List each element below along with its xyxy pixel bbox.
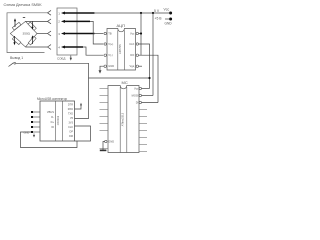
USB right pin labels: [68, 104, 74, 139]
wire net4 from bridge bottom: [26, 46, 48, 48]
svg-text:ТВ: ТВ: [108, 32, 112, 36]
svg-text:5 V: 5 V: [154, 9, 160, 13]
wire MC MOSI riser: [142, 95, 154, 97]
MC ground bar: [100, 150, 107, 152]
ADC pin Vss circle: [136, 65, 138, 67]
MC right stubs: [139, 110, 147, 152]
ADC ground arrow: [99, 70, 102, 73]
sensor box: [7, 13, 48, 53]
junction dot ground net: [148, 77, 150, 79]
svg-text:Схема Датчика SM5K: Схема Датчика SM5K: [4, 3, 43, 7]
title: Схема Датчика: [4, 3, 43, 7]
ADC left pin labels: [108, 32, 114, 69]
MC pin MOSI circle: [139, 94, 141, 96]
Vcc terminal: [169, 12, 172, 15]
USB pads dots: [31, 111, 33, 133]
MC ground wire: [103, 142, 105, 150]
svg-text:GND: GND: [108, 64, 114, 68]
arrow R4 up: [31, 35, 33, 44]
ADC inner strip: [118, 30, 125, 70]
ADC pin DO circle: [136, 54, 138, 56]
ADC chip U1 body: [107, 29, 136, 71]
svg-text:Vдд: Vдд: [130, 64, 135, 68]
svg-text:AD7705: AD7705: [118, 44, 122, 54]
wire net3 to ADC pin1: [94, 33, 103, 35]
pin number 1: [58, 11, 60, 15]
ADC right pin labels: [129, 32, 135, 69]
svg-text:GND: GND: [165, 21, 173, 25]
svg-text:3V3: 3V3: [69, 122, 74, 125]
label GND: [165, 21, 173, 25]
USB module label: [37, 97, 67, 101]
MC inner strip: [120, 87, 127, 152]
wire USB GND loop: [21, 132, 78, 148]
signal arrow row4: [61, 46, 83, 49]
svg-text:MicroUSB коннектор: MicroUSB коннектор: [37, 97, 67, 101]
connector fork pin row1: [48, 10, 52, 15]
bridge wheatstone: top arm wires: [10, 21, 37, 47]
svg-text:Vcc: Vcc: [164, 8, 170, 12]
USB ground arrow: [33, 134, 35, 138]
svg-text:TXD: TXD: [68, 113, 73, 116]
svg-text:350Ω: 350Ω: [23, 31, 31, 35]
wire net2 from bridge top: [26, 20, 48, 22]
ADC pin CLK circle: [136, 43, 138, 45]
MC left stubs: [100, 89, 109, 149]
junction dot rail-A: [140, 12, 142, 14]
resistor R4 (bottom-right): [28, 36, 36, 45]
wire USB DTR arrow: [75, 103, 83, 109]
MC GND pin circle: [105, 140, 107, 142]
ground arrow under connector: [70, 56, 72, 61]
ADC label: [117, 23, 126, 28]
USB inner strips: [56, 101, 63, 141]
svg-text:D+: D+: [51, 120, 55, 124]
wire ADC DO down: [139, 55, 159, 102]
connector fork pin row2: [48, 19, 52, 24]
connector label: [57, 56, 65, 60]
svg-text:МС: МС: [122, 80, 128, 85]
MC pin Vcc circle: [139, 87, 141, 89]
wire 5V rail down to MC: [152, 13, 154, 96]
arrow R1 up: [14, 18, 16, 27]
svg-text:VBUS: VBUS: [47, 110, 54, 114]
wire net4 to ADC Vin-: [83, 47, 103, 55]
wire ADC CLK down: [139, 44, 150, 89]
svg-text:DO: DO: [130, 53, 134, 57]
resistor R3 (bottom-left): [12, 37, 21, 45]
wire ADC Vss stub: [139, 65, 143, 67]
svg-text:CLK: CLK: [68, 126, 73, 129]
label Vcc: [164, 8, 170, 12]
junction dot ADC Vcc: [140, 32, 142, 34]
pin number 2: [58, 20, 60, 24]
signal arrow row2: [61, 20, 90, 23]
ADC pin GND circle: [104, 65, 106, 67]
svg-text:ID: ID: [51, 125, 54, 129]
polarity mark: [23, 16, 25, 19]
svg-text:СОЕД: СОЕД: [57, 56, 65, 60]
pin number 3: [58, 32, 60, 36]
arrow R2 down: [31, 21, 33, 30]
svg-text:CLK: CLK: [129, 42, 134, 46]
MC chip U3 body: [108, 86, 139, 153]
resistor R2 (top-right): [28, 22, 36, 30]
resistor R1 (top-left): [12, 22, 21, 30]
ADC pin TB circle: [104, 32, 106, 34]
arrow R3 down: [13, 36, 15, 45]
5V rail wire: [94, 12, 169, 14]
junction dot rail-C: [152, 12, 154, 14]
svg-text:ATtiny2313: ATtiny2313: [121, 112, 125, 126]
signal arrow row1: [61, 12, 95, 15]
MC part number: [121, 112, 125, 126]
svg-text:D-: D-: [51, 115, 54, 119]
svg-text:DI: DI: [136, 101, 139, 105]
USB chip U2 body: [40, 101, 75, 141]
ADC ground wire: [100, 66, 104, 71]
svg-text:GND: GND: [108, 140, 114, 144]
ADC part number: [118, 44, 122, 54]
svg-text:MOSI: MOSI: [132, 94, 139, 98]
switch SW1: [9, 62, 16, 66]
signal arrow row3: [61, 32, 95, 35]
connector fork pin row4: [48, 45, 52, 50]
MC right pin labels: [132, 87, 139, 105]
svg-text:+5 В: +5 В: [155, 17, 163, 21]
label 5V: [154, 9, 160, 13]
wire net3 from bridge right: [37, 33, 48, 35]
MC pin DI circle: [139, 101, 141, 103]
svg-text:DTR: DTR: [68, 104, 73, 107]
svg-text:RXD: RXD: [68, 108, 73, 111]
connector fork pin row3: [48, 31, 52, 36]
wire MC Vcc riser: [142, 88, 150, 90]
svg-text:DP: DP: [70, 131, 74, 134]
svg-text:V(-): V(-): [108, 53, 112, 57]
wire USB loop right: [75, 126, 91, 141]
connector block XS1: [57, 8, 77, 55]
svg-text:CP2102: CP2102: [56, 115, 60, 125]
wire ADC Vcc to 5V rail: [139, 13, 142, 55]
USB pin stubs and pads: [33, 112, 40, 132]
svg-text:DM: DM: [69, 135, 73, 138]
svg-text:Vcc: Vcc: [134, 87, 139, 91]
ADC pin Vin- circle: [104, 54, 106, 56]
wire MC DI riser: [142, 102, 159, 104]
svg-text:Vcc: Vcc: [130, 32, 135, 36]
label +5V: [155, 17, 163, 21]
long ground net wire: [89, 77, 150, 79]
switch label: [10, 56, 23, 60]
svg-text:V(+): V(+): [108, 42, 113, 46]
bridge label 350: [23, 31, 31, 35]
USB left pin labels: [47, 110, 55, 129]
USB part number: [56, 115, 60, 125]
wire net2 to ADC Vin+: [90, 21, 103, 44]
ADC pin Vcc circle: [136, 32, 138, 34]
svg-text:АЦП: АЦП: [117, 23, 126, 28]
pin number 4: [58, 45, 60, 49]
ADC pin Vin+ circle: [104, 43, 106, 45]
MC label: [122, 80, 128, 85]
wire switch to USB column: [16, 63, 89, 118]
svg-text:Вывод 1: Вывод 1: [10, 56, 23, 60]
MC GND label: [108, 140, 114, 144]
GND terminal: [165, 18, 172, 21]
USB GND label: [24, 130, 30, 134]
